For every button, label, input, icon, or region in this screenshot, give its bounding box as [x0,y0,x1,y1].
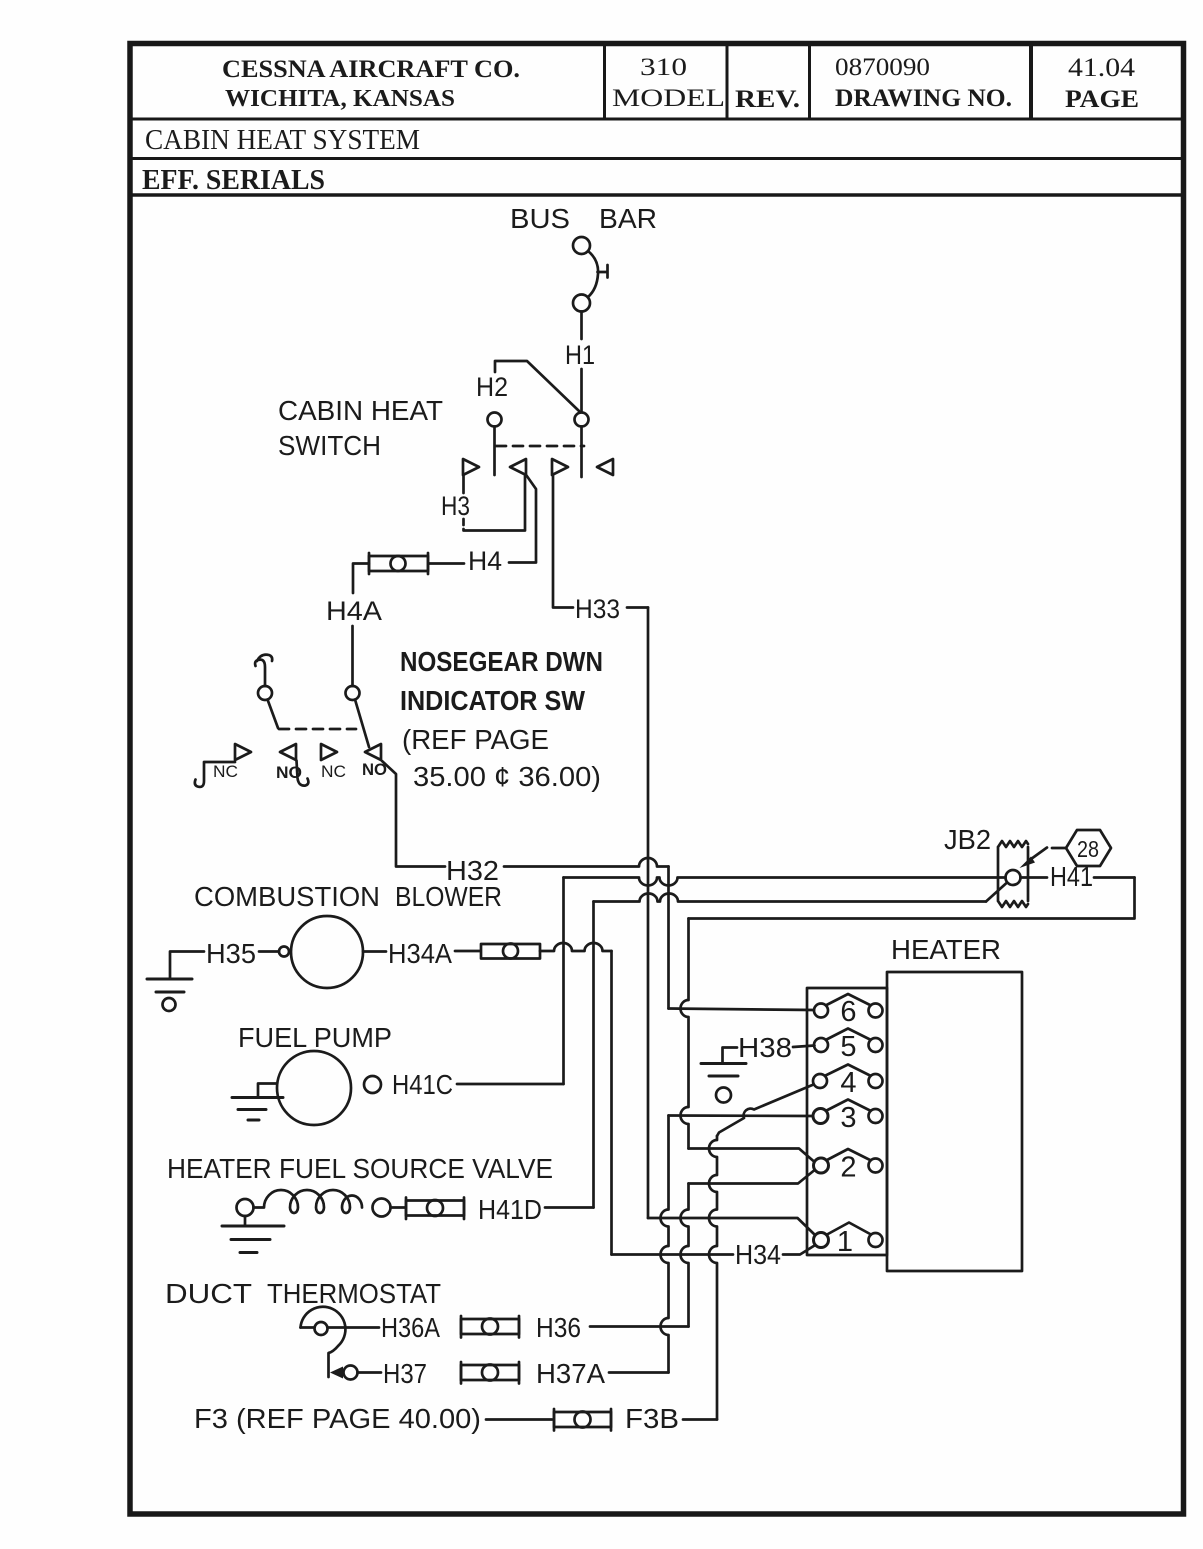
svg-text:H37: H37 [383,1358,427,1389]
svg-text:CABIN HEAT SYSTEM: CABIN HEAT SYSTEM [145,125,420,156]
wire H36A west (through thermostat terminal) [301,1326,380,1329]
svg-text:41.04: 41.04 [1068,53,1135,82]
combustion blower terminal [279,947,289,957]
svg-text:1: 1 [837,1226,853,1258]
ground (H38) [701,1064,746,1077]
wire fuse east with hops over risers [540,943,612,951]
svg-text:6: 6 [840,996,856,1028]
svg-text:(REF PAGE: (REF PAGE [402,724,549,755]
svg-text:H4: H4 [468,546,502,576]
wire heater terminal 6 feed [669,1009,815,1011]
nose gear contact NC1 [235,744,251,760]
circuit breaker bottom terminal [573,295,590,312]
wire fuse to H4A corner [353,564,369,594]
header column divider D [1029,45,1033,119]
nose gear switch right pole terminal [346,686,360,700]
heater box [887,972,1022,1271]
cabin heat switch linkage (dashed) [496,445,584,448]
JB2 lower diagonal to valve net [986,883,1007,902]
wire H41C [457,1083,564,1086]
hexagon flag 28 [1066,830,1111,866]
header column divider C [808,45,811,119]
svg-text:CABIN HEAT: CABIN HEAT [278,395,443,426]
ground (combustion blower) [147,979,192,992]
fuse (H37) [461,1365,519,1380]
svg-text:H36: H36 [536,1312,581,1343]
cabin heat switch blade bracket [495,361,579,411]
wire heater terminal 3 feed [669,1114,814,1117]
svg-text:INDICATOR SW: INDICATOR SW [400,685,586,716]
valve terminal [373,1199,391,1217]
cabin heat switch pole terminal H2 [488,413,502,427]
svg-text:310: 310 [640,54,687,81]
header column divider B [726,45,729,119]
wire H41 riser to heater terminal 2 (with bows) [681,919,689,1149]
wire H41 return loop [689,878,1135,919]
wire H41D east [545,1206,594,1209]
wire NO2 contact to H32 [382,761,445,867]
svg-text:H36A: H36A [381,1312,440,1343]
nose gear NO1 hook [297,761,309,786]
wire H37 west [358,1371,382,1374]
valve ground terminal [237,1199,254,1216]
circuit breaker on bus bar: top terminal [573,237,590,254]
fuse (H36) [461,1319,519,1334]
wire breaker to H1 label [580,312,583,340]
wire H35 right segment [259,950,279,953]
wire H33 to main riser [627,606,648,609]
svg-text:COMBUSTION: COMBUSTION [194,881,380,912]
wire H34 riser [610,951,613,1255]
header row separator line 1 [130,118,1184,121]
svg-text:NC: NC [321,762,346,781]
duct thermostat lower contact circle [344,1366,358,1380]
JB2 terminal circle [1006,870,1021,885]
svg-text:H3: H3 [441,491,470,521]
nose gear contact NO1 [280,744,296,760]
heater connector strip [807,988,887,1255]
svg-text:DUCT: DUCT [165,1278,252,1309]
nose gear switch left pole curl [255,655,272,686]
heater terminal 2 [814,1158,829,1173]
circuit breaker actuator tick [598,265,608,278]
arrow from hexagon to JB2 terminal [1029,848,1066,861]
fuse (valve H41D) [406,1201,464,1216]
wire heater terminal 2 upper feed [689,1149,815,1162]
wire H3 loop to T2 [464,476,526,531]
nose gear contact NC2 [321,744,337,760]
wire F3B riser with bows [709,1136,717,1420]
wire blower to H34A [363,950,386,953]
svg-text:BAR: BAR [599,203,657,234]
svg-text:H41: H41 [1050,861,1093,892]
svg-text:BLOWER: BLOWER [395,881,502,912]
header row separator line 3 [130,193,1184,197]
svg-text:THERMOSTAT: THERMOSTAT [267,1278,441,1309]
svg-text:PAGE: PAGE [1065,86,1139,113]
cabin heat switch pole terminal H1 [575,413,589,427]
combustion blower motor [291,916,363,988]
svg-text:0870090: 0870090 [835,54,930,81]
heater terminal 5 [814,1038,828,1052]
svg-text:DRAWING NO.: DRAWING NO. [835,85,1012,112]
fuel pump terminal [364,1076,381,1093]
svg-text:H33: H33 [575,594,620,624]
wire H36 east [590,1325,689,1328]
wire T3 contact to H33 label [553,476,573,608]
heater terminal 3 [813,1109,828,1124]
wire T2 contact to H4 [509,476,536,563]
circuit breaker arc [588,251,598,297]
wire H34 row west [612,1253,734,1256]
cabin heat switch contact T1 [463,459,479,475]
svg-text:F3B: F3B [625,1403,679,1434]
wire H41C riser [562,878,565,1085]
valve ground [244,1216,247,1226]
svg-text:3: 3 [840,1102,856,1134]
JB2 junction block [998,841,1028,907]
wire heater terminal 1 upper feed (H33 net) [648,1218,815,1235]
wire H3 dashed stub [462,519,465,529]
svg-text:FUEL PUMP: FUEL PUMP [238,1022,392,1053]
heater terminal 4 [813,1074,827,1088]
header column divider A [603,45,606,119]
svg-text:H38: H38 [738,1032,792,1063]
svg-text:H41D: H41D [478,1194,542,1225]
wire heater terminal 2 lower feed [689,1171,815,1184]
svg-text:NOSEGEAR DWN: NOSEGEAR DWN [400,646,603,677]
nose gear contact NO2 [365,744,381,760]
wire H41 east segments [1021,876,1135,879]
svg-text:2: 2 [840,1152,856,1184]
svg-text:H41C: H41C [392,1069,453,1100]
fuel pump motor [277,1051,351,1125]
svg-text:NC: NC [213,762,238,781]
svg-text:H34A: H34A [388,938,452,969]
wire H4A to nose gear pole [351,626,354,686]
wire F3B east [683,1418,717,1421]
svg-text:28: 28 [1077,836,1099,862]
svg-text:5: 5 [840,1031,856,1063]
wire H1 to switch pole [580,369,583,412]
wire H34A to fuse [455,950,480,953]
svg-text:H34: H34 [735,1239,781,1270]
fuel pump ground [258,1084,277,1097]
wire H38 west to ground [723,1048,738,1063]
svg-text:H35: H35 [206,938,256,969]
wire H32 riser to heater terminal 6 [667,867,670,1009]
fuse (combustion blower) [481,944,540,959]
heater terminal 6 [814,1004,828,1018]
wire H33 riser [647,608,650,1219]
header row separator line 2 [130,157,1184,160]
nose gear switch linkage (dashed) [279,728,356,731]
svg-text:F3 (REF PAGE 40.00): F3 (REF PAGE 40.00) [194,1403,481,1434]
nose gear NC1 bracket [195,762,235,787]
svg-text:35.00 ¢ 36.00): 35.00 ¢ 36.00) [413,761,601,792]
cabin heat switch contact T3 [552,459,568,475]
wire H35 to ground [170,952,204,979]
wire H41D riser [592,902,595,1208]
svg-text:REV.: REV. [735,86,800,113]
cabin heat switch contact T4 [597,459,613,475]
wire H32 east with hop over H33 riser [504,858,669,867]
cabin heat switch right pole stem [580,427,583,478]
svg-text:CESSNA AIRCRAFT CO.: CESSNA AIRCRAFT CO. [222,56,520,83]
fuse (F3) [554,1412,611,1427]
wire H41 west with underpass cups [564,878,1006,886]
duct thermostat bulb arc [301,1307,346,1377]
svg-text:HEATER FUEL SOURCE VALVE: HEATER FUEL SOURCE VALVE [167,1153,553,1184]
wire H34 to terminal 1 [783,1246,815,1255]
wire H37A east [609,1371,669,1374]
wire T1 contact drop [462,475,465,493]
fuse H4 [369,556,428,571]
wire valve terminal to fuse [391,1206,406,1209]
svg-text:4: 4 [840,1067,856,1099]
svg-text:H2: H2 [476,372,508,402]
svg-text:EFF. SERIALS: EFF. SERIALS [142,165,325,196]
cabin heat switch contact T2 [510,459,526,475]
svg-text:H37A: H37A [536,1358,605,1389]
nose gear switch right blade [355,700,369,748]
wire F3 to fuse [486,1418,552,1421]
svg-text:WICHITA, KANSAS: WICHITA, KANSAS [225,86,455,112]
nose gear switch left pole terminal [258,686,272,700]
wire JB2 to valve riser (y=901.5) with hops [594,894,987,902]
svg-text:H1: H1 [565,340,595,370]
nose gear switch left blade [268,700,279,729]
duct thermostat terminal [315,1322,328,1335]
duct thermostat lower contact arrowhead [330,1367,343,1379]
svg-text:JB2: JB2 [944,824,991,855]
svg-text:SWITCH: SWITCH [278,430,381,461]
cabin heat switch left pole stem [493,427,496,476]
wire H4 label to fuse [429,562,464,565]
valve coil [254,1190,363,1213]
wire terminal 2 to H36 riser with bows [681,1184,689,1327]
svg-text:MODEL: MODEL [612,85,725,112]
svg-text:H4A: H4A [326,596,382,626]
wire H38 east to terminal 5 [793,1046,815,1048]
wire heater terminal 4 diagonal with hop [717,1085,814,1137]
svg-text:HEATER: HEATER [891,934,1001,965]
heater terminal 1 [814,1233,829,1248]
svg-text:BUS: BUS [510,203,570,234]
wire terminal 3 to H37A riser with bows [661,1116,669,1373]
